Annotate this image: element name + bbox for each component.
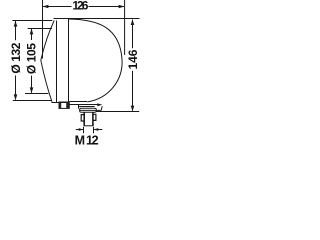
svg-text:Ø 132: Ø 132: [9, 42, 23, 73]
svg-text:126: 126: [72, 0, 88, 13]
svg-text:Ø 105: Ø 105: [25, 43, 39, 74]
svg-text:M 12: M 12: [75, 134, 99, 148]
svg-text:146: 146: [126, 49, 140, 69]
